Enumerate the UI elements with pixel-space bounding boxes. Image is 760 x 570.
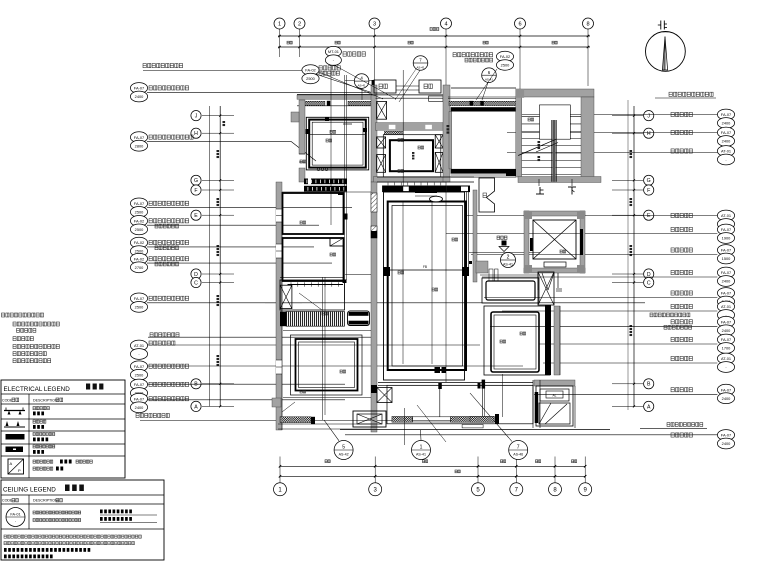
svg-text:A: A — [10, 461, 13, 466]
svg-text:J: J — [195, 113, 198, 119]
svg-text:AL: AL — [553, 394, 557, 398]
svg-text:DESCRIPTION: DESCRIPTION — [33, 399, 58, 403]
svg-text:FA-07: FA-07 — [134, 296, 144, 301]
svg-text:2500: 2500 — [135, 227, 144, 232]
svg-text:2500: 2500 — [135, 249, 144, 254]
svg-text:FA-07: FA-07 — [721, 291, 731, 296]
svg-text:A: A — [647, 404, 651, 410]
svg-text:FA-07: FA-07 — [134, 382, 144, 387]
svg-text:2: 2 — [507, 254, 510, 260]
svg-text:2500: 2500 — [135, 305, 144, 310]
svg-text:AT-01: AT-01 — [721, 304, 731, 309]
svg-text:AS-41: AS-41 — [503, 263, 513, 267]
svg-text:1700: 1700 — [722, 346, 731, 351]
svg-text:1: 1 — [278, 22, 281, 28]
svg-text:AS-46: AS-46 — [513, 453, 523, 457]
svg-text:CEILING LEGEND: CEILING LEGEND — [3, 487, 56, 494]
svg-text:2400: 2400 — [722, 328, 731, 333]
svg-text:F: F — [647, 188, 650, 194]
svg-text:FA-07: FA-07 — [721, 130, 731, 135]
svg-text:2400: 2400 — [135, 94, 144, 99]
svg-text:FA-07: FA-07 — [721, 270, 731, 275]
svg-text:5: 5 — [342, 444, 345, 450]
svg-text:2400: 2400 — [722, 279, 731, 284]
svg-text:F: F — [194, 188, 197, 194]
svg-text:FA-07: FA-07 — [721, 387, 731, 392]
svg-text:AT-01: AT-01 — [721, 213, 731, 218]
svg-text:DESCRIPTION: DESCRIPTION — [33, 499, 58, 503]
svg-text:C: C — [194, 280, 198, 286]
svg-text:AS-41: AS-41 — [358, 84, 366, 88]
svg-text:2500: 2500 — [135, 210, 144, 215]
svg-text:7: 7 — [517, 444, 520, 450]
svg-text:FA-07: FA-07 — [134, 364, 144, 369]
svg-text:2800: 2800 — [135, 143, 144, 148]
svg-text:6: 6 — [518, 22, 521, 28]
svg-text:FA-07: FA-07 — [721, 248, 731, 253]
svg-text:G: G — [194, 178, 198, 184]
svg-text:1900: 1900 — [722, 236, 731, 241]
svg-text:2400: 2400 — [722, 121, 731, 126]
svg-text:FA-02: FA-02 — [134, 240, 144, 245]
svg-text:FA-07: FA-07 — [134, 135, 144, 140]
svg-text:2400: 2400 — [722, 396, 731, 401]
svg-text:D: D — [194, 272, 198, 278]
svg-text:CODE: CODE — [2, 399, 13, 403]
svg-text:FA-07: FA-07 — [721, 337, 731, 342]
svg-text:E: E — [647, 213, 651, 219]
svg-text:AS-42: AS-42 — [339, 453, 349, 457]
svg-text:FA-07: FA-07 — [134, 201, 144, 206]
svg-text:G: G — [647, 178, 651, 184]
svg-text:AT-01: AT-01 — [134, 343, 144, 348]
svg-text:MT-01: MT-01 — [328, 49, 339, 54]
svg-text:AS-41: AS-41 — [485, 78, 493, 82]
svg-text:2400: 2400 — [722, 441, 731, 446]
svg-text:1500: 1500 — [722, 256, 731, 261]
svg-text:H: H — [647, 131, 651, 137]
svg-text:FA-07: FA-07 — [134, 86, 144, 91]
svg-text:ELECTRICAL LEGEND: ELECTRICAL LEGEND — [4, 386, 71, 393]
svg-text:AT-01: AT-01 — [721, 149, 731, 154]
svg-text:FA-07: FA-07 — [721, 433, 731, 438]
svg-text:FA-02: FA-02 — [134, 256, 144, 261]
svg-text:2400: 2400 — [135, 405, 144, 410]
svg-text:A: A — [194, 404, 198, 410]
svg-text:FA-01: FA-01 — [10, 513, 20, 517]
svg-text:FA-07: FA-07 — [134, 396, 144, 401]
svg-text:C: C — [647, 280, 651, 286]
svg-text:E: E — [194, 213, 198, 219]
svg-text:2700: 2700 — [135, 265, 144, 270]
svg-text:H: H — [194, 131, 198, 137]
svg-text:FA-02: FA-02 — [305, 68, 315, 73]
svg-text:FA-07: FA-07 — [721, 227, 731, 232]
svg-text:2500: 2500 — [135, 372, 144, 377]
svg-text:CODE: CODE — [2, 499, 13, 503]
svg-text:AS-41: AS-41 — [416, 65, 424, 69]
svg-text:FB: FB — [423, 265, 427, 269]
svg-text:FA-07: FA-07 — [721, 112, 731, 117]
svg-text:AS-41: AS-41 — [416, 453, 426, 457]
svg-text:FA-02: FA-02 — [134, 219, 144, 224]
svg-text:P: P — [18, 468, 21, 473]
svg-text:B: B — [194, 382, 198, 388]
svg-text:4: 4 — [444, 22, 447, 28]
svg-text:1: 1 — [420, 444, 423, 450]
svg-text:FA-02: FA-02 — [500, 54, 510, 59]
svg-text:B: B — [647, 382, 651, 388]
svg-text:AT-01: AT-01 — [721, 356, 731, 361]
svg-text:8: 8 — [586, 22, 589, 28]
svg-text:2500: 2500 — [306, 76, 315, 81]
svg-text:3: 3 — [373, 22, 376, 28]
svg-text:FA-07: FA-07 — [721, 319, 731, 324]
svg-text:2400: 2400 — [722, 139, 731, 144]
svg-text:2: 2 — [298, 22, 301, 28]
svg-text:2500: 2500 — [501, 63, 510, 68]
